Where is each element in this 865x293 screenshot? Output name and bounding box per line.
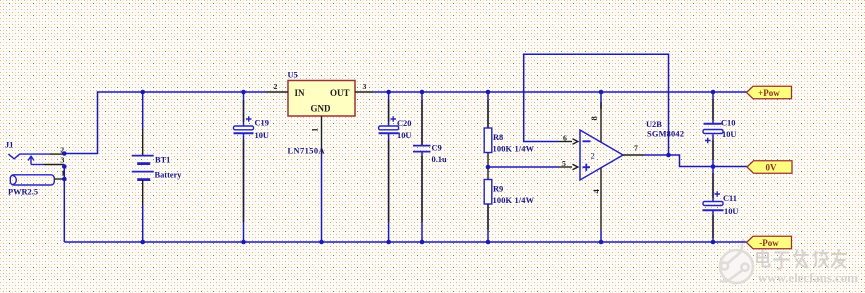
svg-text:LN7150A: LN7150A [288,147,325,156]
wire: bottom rail [64,241,746,243]
op-amp pin 8 (V+) [600,92,602,109]
port -Pow [747,236,792,248]
op-amp pin 4 (V-) [600,168,602,230]
svg-text:10U: 10U [724,207,738,216]
node: C20 top [386,90,391,95]
svg-text:SGM8042: SGM8042 [647,130,684,139]
svg-text:+Pow: +Pow [758,88,780,98]
node: C9 top [420,90,425,95]
wire: top rail left (J1 to U5 pin2) [64,92,266,154]
svg-text:C10: C10 [721,119,735,128]
svg-text:0V: 0V [766,163,778,173]
watermark logo [720,240,754,284]
capacitor C11 [703,167,739,243]
svg-text:R9: R9 [493,185,503,194]
capacitor C19 [234,92,269,242]
node: J1 pin2 junction [62,151,67,156]
svg-text:3: 3 [61,156,65,165]
node: 0V/C10-C11 junction [711,164,716,169]
node: C10 top [711,90,716,95]
svg-text:J1: J1 [5,141,13,150]
svg-text:2: 2 [274,82,278,91]
svg-text:U2B: U2B [646,120,662,129]
wire: R8/R9 mid to op-amp pin5 [488,166,558,168]
svg-text:5: 5 [562,159,566,168]
port +Pow [747,86,792,98]
svg-text:C11: C11 [723,194,737,203]
op-amp U2B [580,120,684,180]
resistor R8 [484,92,534,167]
svg-text:R8: R8 [493,133,503,142]
svg-text:1: 1 [310,128,320,132]
svg-text:8: 8 [589,116,599,121]
node: C9 bottom [420,240,425,245]
port 0V [747,161,792,173]
svg-text:10U: 10U [722,130,736,139]
connector J1 [5,141,64,197]
svg-text:Battery: Battery [155,171,183,180]
svg-text:0.1u: 0.1u [432,155,447,164]
svg-text:100K 1/4W: 100K 1/4W [493,196,535,205]
svg-text:BT1: BT1 [155,156,170,165]
node: C20 bottom [386,240,391,245]
node: R8 top [486,90,491,95]
wire: J1 pins to bottom rail [63,167,65,243]
wire: feedback loop [524,54,669,155]
wire: top rail right (U5 pin3 to +Pow) [373,91,747,93]
svg-text:PWR2.5: PWR2.5 [8,188,38,197]
regulator U5 [266,71,373,243]
pin5 arrowhead [573,164,578,169]
op-amp output pin 7 [623,154,644,156]
node: pin4 bottom [599,240,604,245]
svg-text:GND: GND [311,104,332,114]
svg-text:C9: C9 [432,144,442,153]
svg-text:OUT: OUT [330,88,350,98]
node: battery bottom [140,240,145,245]
node: C19 top [241,90,246,95]
node: battery top [140,90,145,95]
wire: output to 0V port [644,155,747,167]
svg-text:IN: IN [295,88,306,98]
node: R8/R9 midpoint [486,165,491,170]
capacitor C9 [413,92,447,242]
node: U5 GND bottom [319,240,324,245]
battery BT1 [132,92,183,242]
svg-text:2: 2 [591,151,595,161]
watermark chinese text (drawn as vector strokes) [757,250,846,270]
pin6 arrowhead [573,139,578,144]
svg-text:3: 3 [363,82,367,91]
svg-text:1: 1 [61,169,65,178]
svg-text:10U: 10U [255,131,269,140]
node: pin8 top [599,90,604,95]
node: C19 bottom [241,240,246,245]
svg-text:C20: C20 [397,119,411,128]
svg-text:4: 4 [591,189,601,194]
capacitor C20 [379,92,412,242]
svg-text:10U: 10U [397,131,411,140]
node: C11 bottom [711,240,716,245]
svg-text:U5: U5 [288,71,298,80]
node: R9 bottom [486,240,491,245]
svg-text:-Pow: -Pow [759,238,779,248]
node: J1 pin1 junction [62,177,67,182]
node: output/feedback junction [666,153,671,158]
svg-text:C19: C19 [255,118,269,127]
svg-text:100K 1/4W: 100K 1/4W [493,145,535,154]
svg-text:7: 7 [634,144,638,153]
resistor R9 [484,167,534,242]
svg-text:6: 6 [563,134,567,143]
capacitor C10 [703,92,736,167]
node: J1 pin3 junction [62,164,67,169]
svg-text:www.elecfans.com: www.elecfans.com [758,270,858,285]
